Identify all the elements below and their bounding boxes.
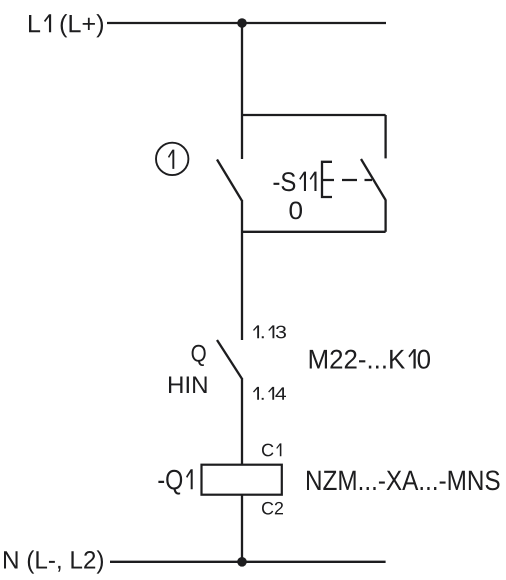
label pin 1.13 [253,325,286,338]
wire branch right vertical upper [384,115,386,158]
switch Q HIN contact blade [217,340,242,379]
node junction top [237,18,247,28]
label HIN [169,376,207,393]
wire main vertical to coil [241,378,243,465]
label -Q1 [158,469,192,494]
label Q [192,345,206,366]
position indicator circle 1 [156,143,188,175]
wire branch right vertical lower [384,200,386,232]
wire main vertical middle [241,200,243,340]
label position 1 digit [168,150,174,169]
wire branch bottom horizontal [242,231,386,233]
wire top bus L1 [107,22,386,24]
label type M22-...K10 [310,349,430,369]
label pin C2 [262,502,283,515]
label -S11 [274,172,317,192]
label position 0 [290,202,302,220]
node junction bottom [237,557,247,567]
wire coil to bottom bus [241,495,243,562]
switch S11 position-0 contact blade [361,159,386,200]
mechanical link dashed [322,179,372,181]
wire main vertical upper [241,23,243,159]
wire bottom bus N [110,561,386,563]
wire branch top horizontal [242,114,386,116]
coil Q1 rectangle [202,465,282,495]
actuator bracket S11 [322,162,332,197]
label L1 (L+) [29,14,103,37]
label type NZM...-XA...-MNS [307,470,499,490]
label pin 1.14 [253,387,286,400]
switch S11 position-1 contact blade [217,160,242,201]
label pin C1 [262,443,281,456]
label N (L-, L2) [4,550,103,573]
